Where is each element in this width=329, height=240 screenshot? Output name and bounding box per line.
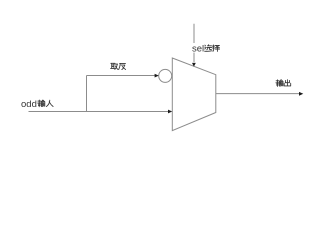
svg-text:sel: sel bbox=[192, 44, 204, 55]
svg-text:odd: odd bbox=[21, 99, 37, 110]
